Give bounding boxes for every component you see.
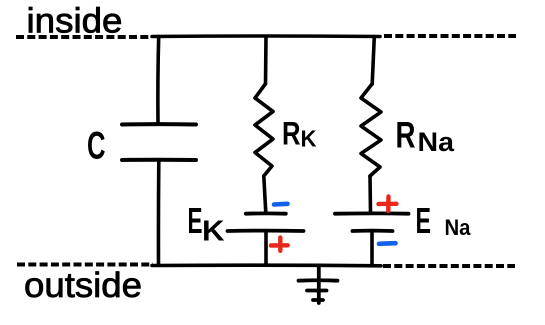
plus sign (ENa, red) bbox=[379, 197, 397, 212]
svg-text:E: E bbox=[416, 200, 432, 241]
svg-text:Na: Na bbox=[445, 215, 472, 240]
resistor RNa bbox=[361, 84, 381, 176]
svg-text:R: R bbox=[282, 116, 301, 152]
wire ENa to bottom rail bbox=[370, 231, 374, 265]
wire RK to battery EK bbox=[264, 176, 266, 213]
label EK bbox=[188, 200, 225, 248]
wire RNa to battery ENa bbox=[368, 176, 372, 213]
label ENa bbox=[416, 200, 472, 241]
label RK bbox=[282, 116, 317, 152]
wire EK to bottom rail bbox=[264, 231, 268, 265]
label inside bbox=[27, 2, 123, 41]
resistor RK bbox=[255, 84, 273, 176]
minus sign (ENa, blue) bbox=[379, 241, 396, 246]
wire top rail to resistor RNa bbox=[372, 37, 374, 85]
wire capacitor to bottom rail bbox=[157, 160, 161, 265]
label RNa bbox=[396, 115, 456, 158]
battery ENa bbox=[335, 213, 409, 231]
top membrane dashed line (left segment) bbox=[16, 35, 151, 39]
svg-text:outside: outside bbox=[24, 266, 142, 305]
bottom membrane dashed line (left segment) bbox=[17, 263, 153, 267]
wire top rail to resistor RK bbox=[264, 37, 268, 85]
svg-text:E: E bbox=[188, 200, 203, 241]
battery EK bbox=[228, 213, 304, 231]
svg-text:K: K bbox=[202, 216, 225, 248]
svg-text:Na: Na bbox=[418, 127, 456, 157]
label outside bbox=[24, 266, 142, 305]
ground bbox=[299, 266, 338, 303]
wire bottom rail (node outside) bbox=[152, 263, 381, 267]
capacitor C bbox=[122, 124, 196, 160]
wire top rail (node inside) bbox=[152, 34, 380, 38]
label C bbox=[87, 125, 106, 168]
svg-text:inside: inside bbox=[27, 2, 123, 41]
bottom membrane dashed line (right segment) bbox=[383, 264, 515, 268]
wire top rail to capacitor bbox=[156, 37, 160, 125]
minus sign (EK, blue) bbox=[274, 202, 288, 207]
svg-text:R: R bbox=[396, 115, 416, 156]
svg-text:C: C bbox=[87, 125, 106, 168]
svg-text:K: K bbox=[301, 126, 317, 152]
top dashed membrane line (right segment) bbox=[384, 34, 516, 38]
plus sign (EK, red) bbox=[271, 238, 288, 251]
